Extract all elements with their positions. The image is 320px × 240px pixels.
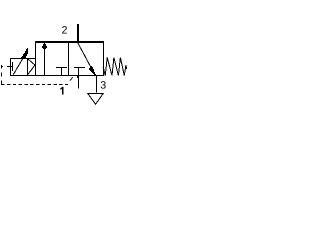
solenoid box left edge [10,58,12,76]
valve body left edge [35,41,37,76]
left position flow line 1 to 2 [44,43,46,75]
port 2 connection line [77,24,79,42]
port 1 connection stub [78,75,80,89]
right position blocked port T crossbar [74,67,85,69]
left position flow arrowhead [42,43,47,50]
right position blocked port T stem [78,67,80,75]
pilot tap junction dot [77,76,79,78]
solenoid box top edge [10,58,35,60]
right position flow line 2 to 3 [78,43,91,67]
return spring [103,57,127,75]
port 3 connection stub [96,75,98,93]
valve body V1 top edge [35,41,104,43]
solenoid coil diagonal [13,56,24,75]
exhaust triangle at port 3 [88,94,103,105]
left position blocked port T stem [61,67,63,75]
left position blocked port T crossbar [56,67,67,69]
pilot stage separator line [27,58,29,76]
pilot line vertical segment (dashed) [1,65,3,85]
position divider line [68,42,70,75]
pilot amplifier triangle lower side [28,65,35,74]
pilot line dash at entry [1,66,3,68]
pilot amplifier triangle upper side [28,59,35,65]
valve body / solenoid shared bottom edge [10,75,104,77]
port 2 label [62,26,67,33]
port 1 label [60,87,63,95]
right position flow arrowhead [89,66,96,75]
port 3 label [101,81,106,89]
proportional arrow fin [21,48,28,58]
pilot line diagonal segment to port 1 (dashed) [70,77,73,80]
valve body right edge [103,41,105,76]
pilot line horizontal segment (dashed) [1,84,68,86]
terminal bar [12,62,14,71]
electrical terminal stub [7,66,13,68]
